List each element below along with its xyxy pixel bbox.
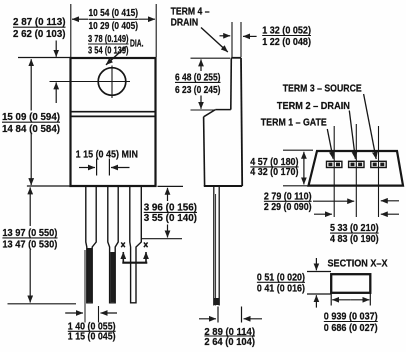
svg-text:2 64 (0 104): 2 64 (0 104) [204,337,255,348]
svg-text:3 54 (0 139): 3 54 (0 139) [88,46,129,57]
svg-text:13 97 (0 550): 13 97 (0 550) [2,228,57,239]
svg-text:4 83 (0 190): 4 83 (0 190) [330,234,379,245]
dimension 10.54/10.29 top width [71,4,156,57]
dimension 13.97/13.47 lead length [2,187,76,303]
dimension 3.78/3.54 DIA hole [88,34,144,65]
mounting hole [98,68,126,96]
dimension 6.48/6.23 tab height [175,58,230,110]
svg-text:6 23 (0 245): 6 23 (0 245) [175,85,221,96]
leader arrow to terminal 3 [364,94,377,159]
svg-text:13 47 (0 530): 13 47 (0 530) [2,240,57,251]
svg-text:1 22 (0 048): 1 22 (0 048) [262,37,311,48]
dimension 0.939/0.686 lead width [324,293,378,334]
svg-text:2 29 (0 090): 2 29 (0 090) [264,202,312,213]
terminal 3 center line [378,126,380,217]
svg-text:2 62 (0 103): 2 62 (0 103) [13,29,66,40]
svg-text:1 15 (0 045): 1 15 (0 045) [68,331,116,342]
leader arrow to terminal 2 [349,111,355,159]
svg-text:0 51 (0 020): 0 51 (0 020) [257,272,305,283]
svg-text:TERM 4 –: TERM 4 – [171,7,210,18]
leader arrow to terminal 1 [327,129,333,159]
terminal 3 pad [371,161,386,167]
svg-text:2 79 (0 110): 2 79 (0 110) [264,191,312,202]
bottom view trapezoid outline [309,151,404,186]
dimension 1.40/1.15 lead width [65,313,117,342]
svg-text:3 96 (0 156): 3 96 (0 156) [144,202,197,213]
svg-text:4 32 (0 170): 4 32 (0 170) [250,167,298,178]
terminal 1 center line [333,126,335,217]
tab/body boundary double line [71,112,156,117]
svg-text:1 32 (0 052): 1 32 (0 052) [262,25,311,36]
section cut marks X-X on lead 3 [121,242,147,262]
svg-text:3 78 (0.149): 3 78 (0.149) [88,34,129,45]
dimension 2.79/2.29 terminal pitch [264,191,399,213]
svg-text:0 686 (0 027): 0 686 (0 027) [324,323,378,334]
label TERM 3 - SOURCE [283,84,362,95]
svg-text:SECTION X–X: SECTION X–X [328,259,388,270]
svg-text:DIA.: DIA. [130,39,144,50]
label SECTION X-X [328,259,388,270]
svg-text:6 48 (0 255): 6 48 (0 255) [175,72,221,83]
svg-text:DRAIN: DRAIN [171,17,199,28]
svg-text:1 15 (0 45) MIN: 1 15 (0 45) MIN [76,149,138,160]
section X-X lead cross-section rectangle [331,274,370,293]
lead 1 dimension extension lines [85,250,99,323]
svg-text:TERM 3 – SOURCE: TERM 3 – SOURCE [283,84,362,95]
dimension 1.32/1.22 tab thickness [220,22,312,57]
dimension 2.87/2.62 hole offset [13,17,71,103]
lead (side view) [214,186,219,306]
dimension 0.51/0.41 lead thickness [257,258,331,308]
hole crosshair centerlines [50,66,131,99]
lead 3 (front view) [130,186,142,303]
dimension 1.15 (0.45) MIN lead gap [76,149,138,175]
svg-text:0 939 (0 037): 0 939 (0 037) [324,312,378,323]
svg-text:5 33 (0 210): 5 33 (0 210) [330,223,379,234]
front view package body [71,58,156,186]
lead 2 (front view) [108,186,118,303]
svg-text:TERM 1 – GATE: TERM 1 – GATE [261,118,327,129]
lead 1 (front view) [86,186,96,303]
label TERM 2 - DRAIN [277,101,350,112]
dimension 15.09/14.84 body height [2,59,71,186]
svg-text:15 09 (0 594): 15 09 (0 594) [2,112,60,123]
svg-text:3 55 (0 140): 3 55 (0 140) [144,213,197,224]
terminal 2 center line [355,124,357,217]
svg-text:10 54 (0 415): 10 54 (0 415) [89,8,139,19]
terminal 2 pad [349,161,364,167]
label TERM 4 - DRAIN [171,7,228,52]
dimension 2.89/2.64 seating thickness [199,307,262,348]
dimension 4.57/4.32 body depth [250,150,313,186]
svg-text:0 41 (0 016): 0 41 (0 016) [257,284,305,295]
dimension 5.33/4.83 terminal span [314,214,399,245]
svg-text:10 29 (0 405): 10 29 (0 405) [89,21,139,32]
label TERM 1 - GATE [261,118,327,129]
svg-text:TERM 2 – DRAIN: TERM 2 – DRAIN [277,101,350,112]
dimension 3.96/3.55 shoulder [142,186,197,238]
side view package profile [204,58,243,186]
terminal 1 pad [327,161,342,167]
svg-text:2 87 (0 113): 2 87 (0 113) [13,17,66,28]
